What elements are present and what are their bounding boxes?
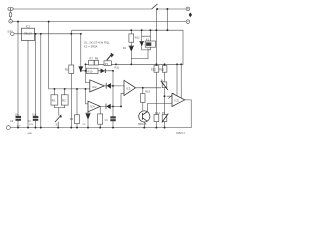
- svg-text:R11: R11: [115, 65, 120, 69]
- svg-text:10V: 10V: [29, 124, 33, 126]
- svg-text:IC3: IC3: [126, 87, 131, 91]
- svg-text:R10: R10: [88, 69, 93, 73]
- svg-text:R12: R12: [135, 35, 140, 39]
- svg-text:R8: R8: [95, 57, 99, 61]
- svg-text:R2: R2: [62, 99, 66, 103]
- svg-text:10µ: 10µ: [32, 114, 37, 116]
- svg-text:A: A: [161, 78, 163, 82]
- svg-text:BD135: BD135: [138, 122, 146, 126]
- svg-text:R13: R13: [151, 67, 156, 71]
- svg-text:R14: R14: [155, 111, 160, 115]
- svg-text:R7: R7: [90, 57, 94, 61]
- svg-text:P2: P2: [162, 111, 166, 115]
- svg-text:S1: S1: [56, 123, 60, 127]
- svg-text:R6: R6: [70, 117, 74, 121]
- svg-text:IC1: IC1: [26, 24, 31, 28]
- svg-text:D1: D1: [123, 46, 127, 50]
- svg-text:R15: R15: [159, 67, 164, 71]
- svg-text:P1: P1: [105, 62, 109, 66]
- svg-text:IC5: IC5: [175, 99, 180, 103]
- svg-text:S R1: S R1: [7, 30, 13, 33]
- svg-text:GL..2K,GT=1W RQL: GL..2K,GT=1W RQL: [84, 41, 110, 45]
- svg-text:10µ: 10µ: [15, 114, 20, 116]
- svg-text:84527-1: 84527-1: [176, 133, 185, 135]
- svg-text:78L12: 78L12: [24, 31, 32, 35]
- svg-text:IC4: IC4: [90, 105, 95, 109]
- svg-text:K2 = 2R5A: K2 = 2R5A: [84, 45, 98, 49]
- svg-text:R5: R5: [65, 67, 69, 71]
- svg-text:IC2: IC2: [92, 85, 97, 89]
- svg-text:GND: GND: [27, 133, 32, 135]
- svg-text:R16: R16: [145, 90, 150, 94]
- svg-text:K1: K1: [146, 38, 150, 42]
- svg-text:R1: R1: [52, 99, 56, 103]
